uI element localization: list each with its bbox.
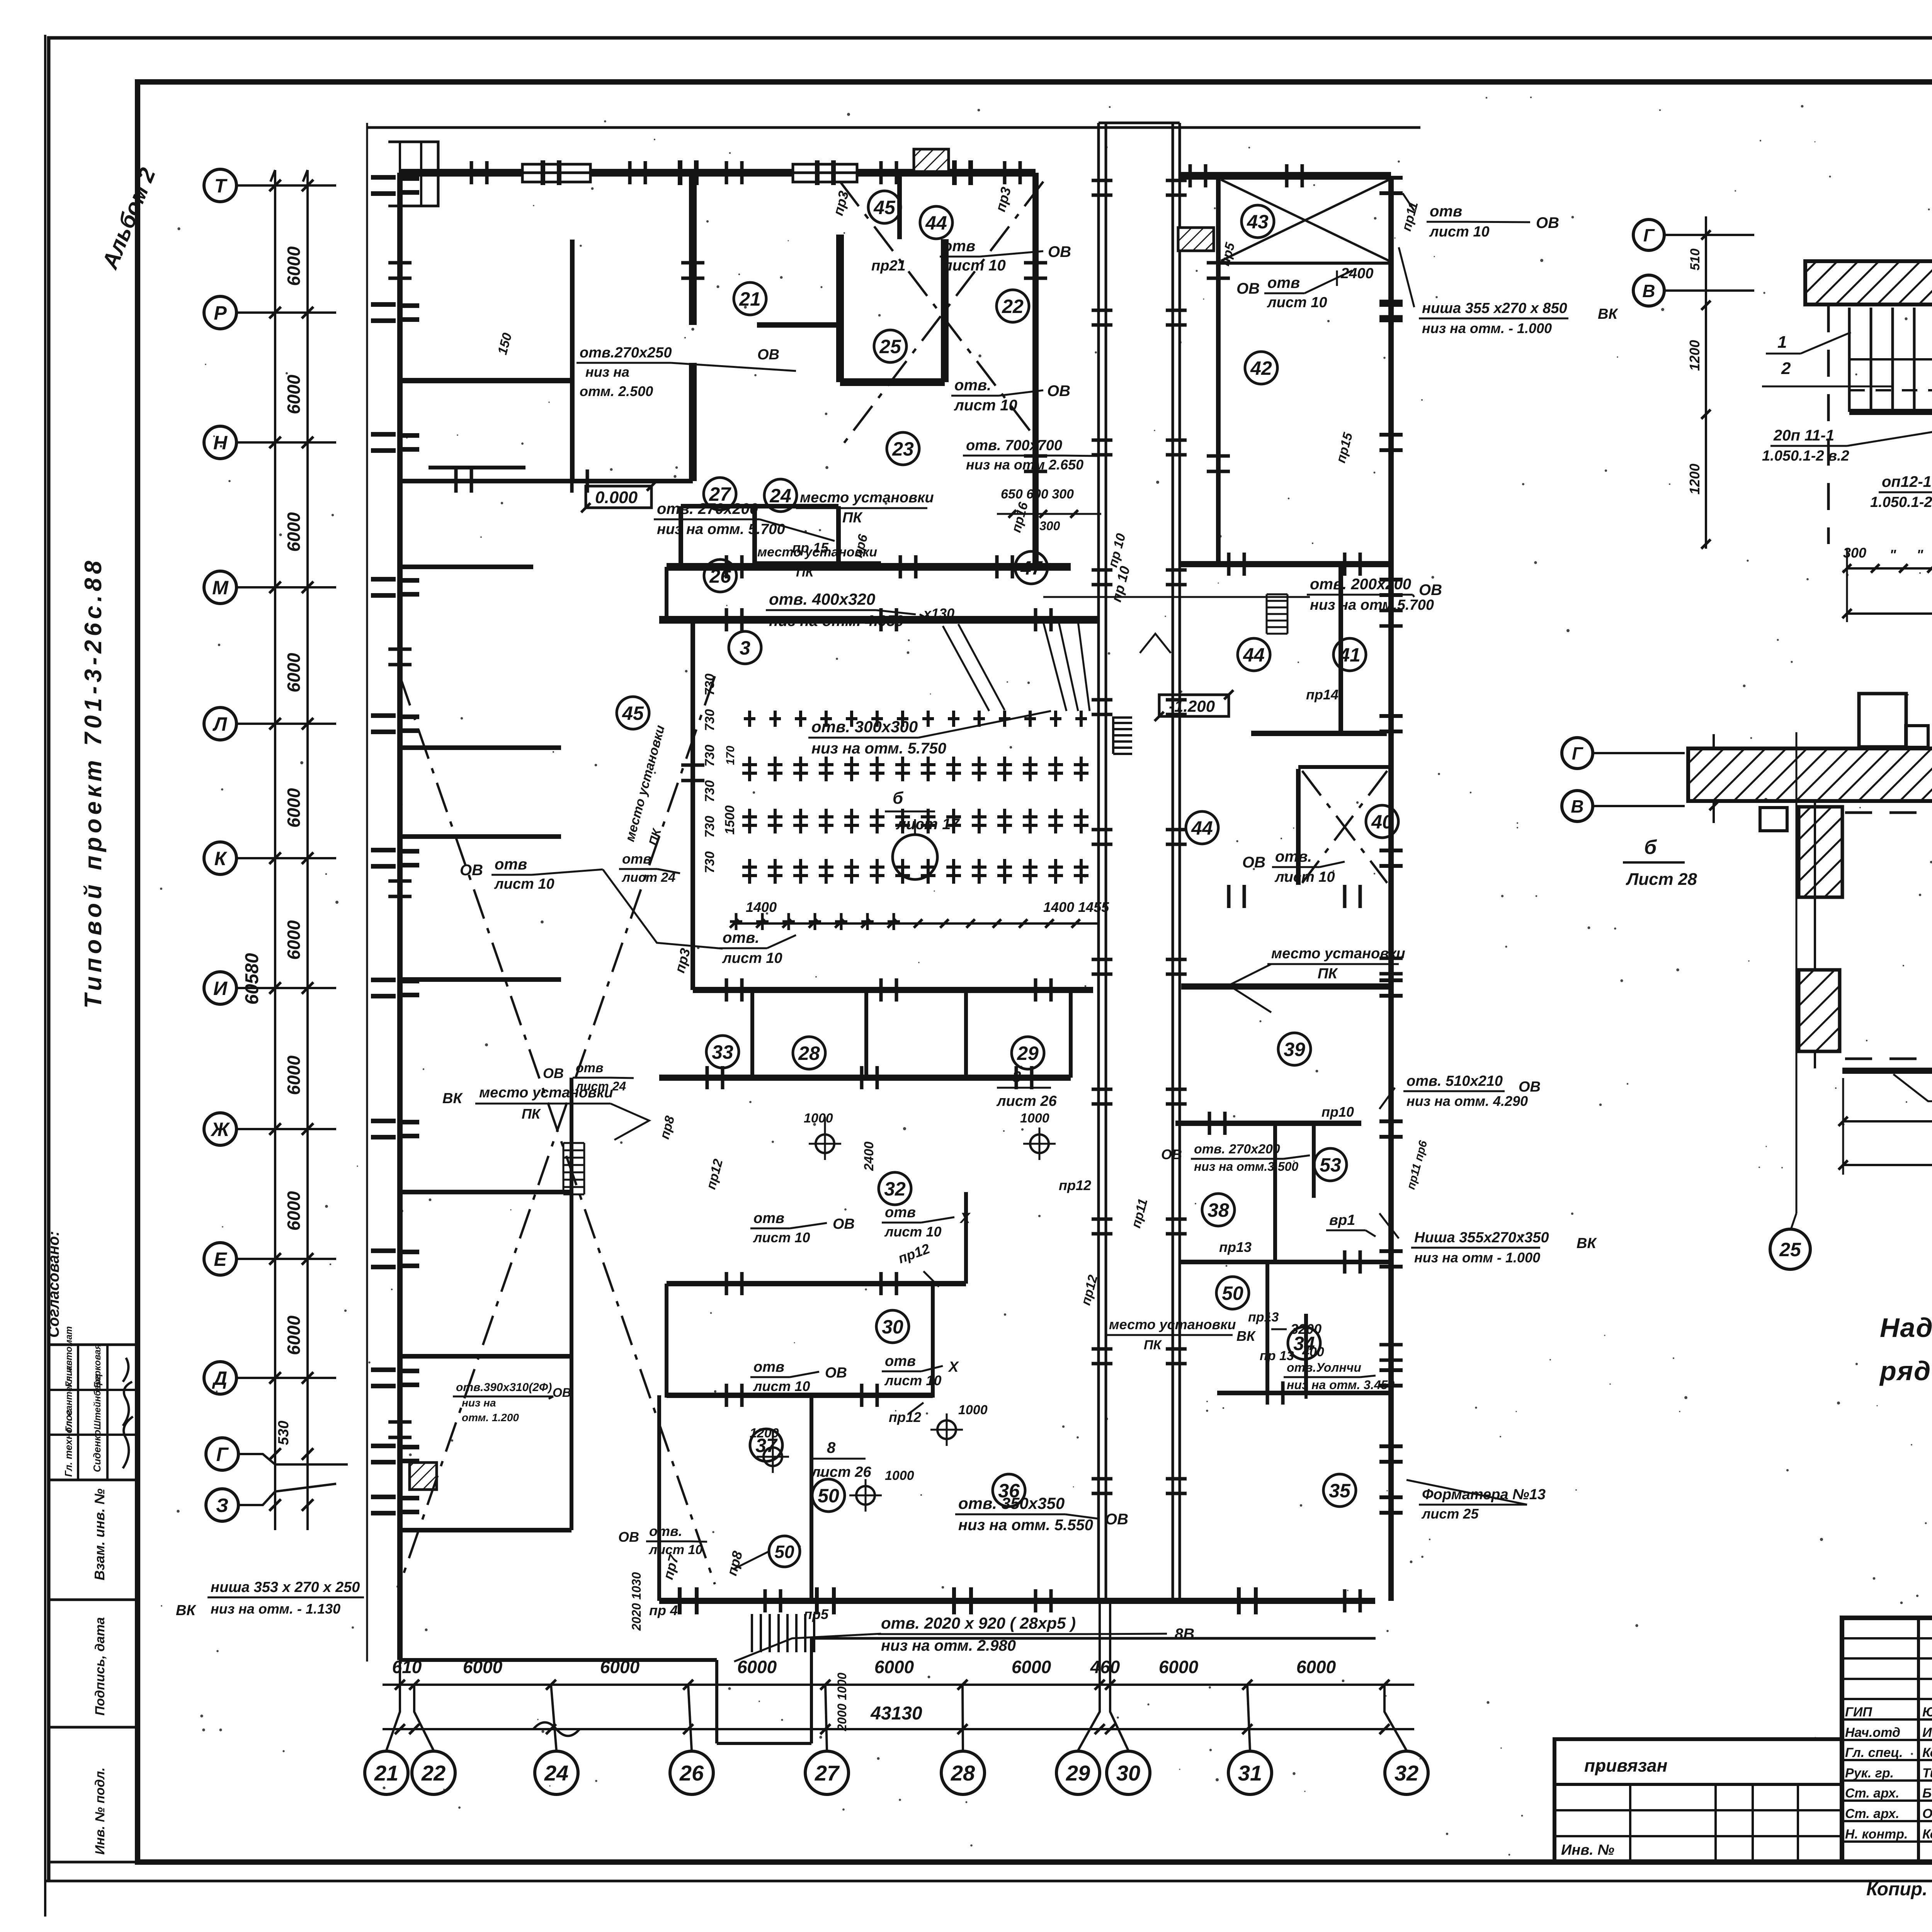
corridor colmark L9 (1092, 1347, 1112, 1351)
right wall column Е (1379, 1249, 1403, 1253)
left wall column Л (371, 713, 396, 718)
svg-text:Инв. № подл.: Инв. № подл. (93, 1767, 107, 1855)
svg-text:730: 730 (702, 673, 717, 696)
row33 partitions (750, 990, 754, 1078)
svg-text:1500: 1500 (723, 805, 737, 835)
room40 X diag (1302, 771, 1387, 883)
svg-text:460: 460 (1090, 1657, 1120, 1677)
room circle 28 (793, 1037, 825, 1069)
room circle 53 (1314, 1148, 1347, 1181)
svg-text:2400: 2400 (1340, 265, 1374, 282)
porch2 sq b (1906, 726, 1928, 747)
corridor colmark R5 (1166, 828, 1187, 832)
svg-text:1000: 1000 (804, 1111, 833, 1126)
svg-text:отв. 2020 x 920 ( 28хр5 ): отв. 2020 x 920 ( 28хр5 ) (881, 1614, 1076, 1632)
svg-text:28: 28 (798, 1043, 820, 1064)
corridor colmark L3 (1092, 568, 1112, 572)
svg-text:Г: Г (216, 1444, 229, 1465)
left wall column Е (371, 1248, 396, 1253)
left wall column З (371, 1495, 396, 1499)
svg-text:ПК: ПК (842, 510, 863, 526)
ann otv 47 fan (943, 626, 989, 711)
room35 divider (1304, 1393, 1308, 1399)
svg-text:отв: отв (753, 1359, 784, 1375)
row33 bottom wall (659, 1075, 1071, 1081)
left wall column И (371, 978, 396, 982)
bottom axis leader 28 (963, 1685, 963, 1750)
right wall column М (1379, 578, 1403, 582)
sheet scan bottom edge (45, 1880, 1932, 1883)
svg-text:Р: Р (214, 302, 227, 324)
room circle 45 (617, 697, 649, 729)
left dim tick К (269, 852, 281, 864)
room50-34 walls (1265, 1262, 1269, 1393)
bottom axis circle 22 (412, 1751, 455, 1794)
svg-text:лист 10: лист 10 (942, 257, 1006, 274)
left dim tick Ж (269, 1123, 281, 1135)
svg-text:6000: 6000 (284, 374, 304, 414)
svg-text:6000: 6000 (284, 788, 304, 828)
svg-text:отв.270x250: отв.270x250 (580, 345, 672, 361)
bottom axis circle 24 (535, 1751, 578, 1794)
external stair bottom (751, 1614, 753, 1652)
svg-text:53: 53 (1320, 1154, 1341, 1176)
room37 band (657, 1395, 661, 1601)
svg-text:лист 10: лист 10 (753, 1230, 810, 1245)
svg-text:ОВ: ОВ (460, 862, 483, 879)
right block top wall (1180, 172, 1391, 180)
svg-text:26: 26 (679, 1761, 704, 1785)
room circle 34 (1288, 1327, 1320, 1359)
svg-text:Г: Г (1643, 225, 1655, 245)
corridor colmark L4 (1092, 698, 1112, 702)
plan left wall (397, 173, 403, 1660)
room32 band walls (667, 1281, 966, 1286)
svg-text:отв. 510x210: отв. 510x210 (1406, 1073, 1503, 1089)
svg-text:ОВ: ОВ (1519, 1079, 1541, 1095)
svg-text:пр13: пр13 (1219, 1239, 1252, 1255)
corridor colmark R4 (1166, 698, 1187, 702)
axis circle Г (206, 1438, 238, 1470)
svg-text:1400: 1400 (746, 899, 777, 915)
porch2 dashed bottom (1845, 1058, 1932, 1060)
porch2 dim 5700 (1843, 1164, 1932, 1166)
svg-text:отв: отв (885, 1353, 916, 1369)
hall rack row 2 (748, 757, 751, 781)
svg-text:6000: 6000 (284, 1191, 304, 1231)
hatch box small (410, 1463, 437, 1490)
corridor colmark R9 (1166, 1347, 1187, 1351)
svg-text:пр12: пр12 (1059, 1177, 1091, 1193)
ann oplus 30c (856, 1486, 875, 1505)
svg-text:1400 1455: 1400 1455 (1043, 899, 1109, 915)
left wall column Д (371, 1367, 396, 1372)
porch1 dim 5700 (1847, 612, 1932, 615)
porch2 axis circle 25 (1770, 1229, 1810, 1269)
svg-text:20п 11-1: 20п 11-1 (1773, 427, 1834, 444)
svg-text:низ на отм. 5.700: низ на отм. 5.700 (657, 521, 785, 537)
svg-text:Ковбасюк: Ковбасюк (1922, 1745, 1932, 1760)
svg-text:ПК: ПК (796, 565, 814, 580)
sidebar approval table (49, 1345, 138, 1480)
svg-text:лист 26: лист 26 (811, 1464, 871, 1480)
bottom dim tick 29 (1095, 1680, 1105, 1690)
svg-text:отв: отв (943, 238, 975, 255)
bottom axis leader 31 (1247, 1685, 1250, 1750)
svg-text:-1.200: -1.200 (1169, 697, 1215, 715)
svg-text:Инв. №: Инв. № (1561, 1842, 1614, 1858)
svg-text:ниша 353 x 270 x 250: ниша 353 x 270 x 250 (211, 1579, 360, 1595)
porch2 thick L (1842, 912, 1932, 1071)
left wall column Г (371, 1444, 396, 1448)
svg-text:8: 8 (827, 1439, 836, 1456)
hall dim line (734, 922, 1097, 925)
titleblock row lines (1842, 1637, 1932, 1639)
ann oplus 30a (764, 1447, 782, 1466)
room circle 50 (812, 1479, 845, 1512)
room circle 29 (1012, 1037, 1044, 1069)
svg-text:отв.390x310(2Ф): отв.390x310(2Ф) (456, 1381, 552, 1394)
rooms44-41 partition (1338, 564, 1343, 733)
room25 box (836, 235, 844, 382)
svg-text:33: 33 (712, 1041, 733, 1063)
wall y2553 right (1181, 983, 1389, 990)
svg-text:39: 39 (1284, 1039, 1305, 1060)
bottom axis leader 26 (688, 1685, 692, 1750)
axis circle Е (204, 1243, 236, 1275)
svg-text:Рук. гр.: Рук. гр. (1845, 1766, 1894, 1781)
svg-text:2400: 2400 (862, 1141, 876, 1171)
svg-text:1: 1 (1777, 333, 1787, 352)
svg-text:К: К (214, 848, 228, 869)
titleblock col lines (1917, 1618, 1920, 1862)
svg-text:Берковая: Берковая (92, 1344, 103, 1388)
svg-text:пр13: пр13 (1248, 1310, 1279, 1325)
room circle 27 (704, 478, 736, 510)
room43 bottom thin (1218, 262, 1391, 265)
plan top canopy line (367, 126, 1420, 129)
porch1 axis V (1633, 275, 1664, 306)
hall rack row 3 (748, 809, 751, 833)
svg-text:45: 45 (873, 197, 896, 218)
svg-text:1000: 1000 (958, 1403, 988, 1417)
svg-text:привязан: привязан (1584, 1755, 1667, 1776)
svg-text:низ на отм. 5.750: низ на отм. 5.750 (811, 740, 946, 757)
svg-text:В: В (1571, 796, 1583, 816)
svg-text:место установки: место установки (1271, 946, 1405, 962)
svg-text:530: 530 (276, 1421, 292, 1445)
left wall column К (371, 848, 396, 852)
svg-text:лист 10: лист 10 (1274, 869, 1335, 885)
svg-text:44: 44 (1191, 817, 1213, 839)
axis circle М (204, 571, 236, 604)
svg-text:Ж: Ж (210, 1119, 230, 1140)
porch2 ann 20p12 (1893, 1074, 1932, 1101)
svg-text:45: 45 (622, 702, 644, 724)
axis circle Т (204, 169, 236, 202)
bottom axis circle 26 (670, 1751, 713, 1794)
bottom dim line 2 (383, 1728, 1414, 1730)
svg-text:низ на отм. 2.980: низ на отм. 2.980 (881, 1637, 1016, 1654)
porch2 sq c (1760, 808, 1787, 831)
wall junction ticks v (388, 261, 412, 265)
left dim tick М (269, 582, 281, 593)
svg-text:ОВ: ОВ (833, 1216, 855, 1232)
porch2 dim verticals (1842, 1078, 1844, 1175)
room53 walls (1273, 1123, 1277, 1262)
svg-text:50: 50 (1222, 1282, 1243, 1304)
svg-text:отв: отв (622, 851, 651, 867)
svg-text:место установки: место установки (757, 545, 877, 560)
axis circle З (206, 1489, 238, 1521)
svg-text:400: 400 (1302, 1345, 1324, 1359)
porch1 dim verticals (1846, 549, 1848, 622)
svg-text:Х: Х (948, 1359, 959, 1375)
svg-text:отв. 350x350: отв. 350x350 (958, 1494, 1065, 1512)
svg-text:Осадченко: Осадченко (1922, 1806, 1932, 1821)
svg-text:отм. 1.200: отм. 1.200 (462, 1412, 519, 1423)
porch2 sq a (1859, 694, 1906, 747)
svg-text:отв: отв (753, 1210, 784, 1226)
svg-text:22: 22 (421, 1761, 446, 1785)
right wall column Д (1379, 1368, 1403, 1372)
right wall column Л (1379, 714, 1403, 718)
svg-text:ОВ: ОВ (1236, 280, 1260, 297)
svg-text:отв: отв (495, 856, 527, 873)
svg-text:21: 21 (739, 288, 761, 310)
svg-text:лист 17: лист 17 (896, 816, 960, 833)
left wall column М (371, 577, 396, 582)
svg-text:ВК: ВК (1577, 1235, 1597, 1252)
room circle 38 (1202, 1194, 1235, 1226)
svg-text:пр 4: пр 4 (649, 1602, 678, 1618)
left dim tick Е (269, 1253, 281, 1265)
svg-text:ОВ: ОВ (1536, 214, 1559, 231)
svg-text:47: 47 (1020, 557, 1043, 579)
ladder symbol right block (1267, 594, 1287, 595)
left col room wall v1481 (570, 240, 575, 481)
plan bottom exterior line (400, 1658, 717, 1662)
top wall column 1781 (678, 160, 682, 185)
svg-text:ОВ: ОВ (553, 1386, 571, 1400)
room circle 3 (729, 631, 761, 664)
svg-text:ВК: ВК (1236, 1328, 1256, 1344)
svg-text:2020 1030: 2020 1030 (629, 1572, 643, 1631)
svg-text:пр10: пр10 (1321, 1104, 1354, 1120)
svg-text:22: 22 (1002, 296, 1024, 317)
svg-text:27: 27 (815, 1761, 840, 1785)
left dim tick Р (269, 307, 281, 318)
left col wall y3510 (400, 1354, 571, 1359)
right wall column З (1379, 1495, 1403, 1499)
bottom axis leader 27 (825, 1685, 827, 1750)
bottom axis line 29-30 up (1099, 1604, 1101, 1685)
svg-text:оп12-1: оп12-1 (1882, 473, 1932, 490)
bottom dim tick 32 (1379, 1680, 1389, 1690)
svg-text:ВК: ВК (176, 1602, 196, 1619)
hall left wall x1793 (690, 620, 695, 990)
svg-text:730: 730 (702, 816, 717, 838)
left dim tick Т (269, 180, 281, 191)
hall rack row 4 (748, 859, 751, 884)
svg-text:6000: 6000 (284, 653, 304, 692)
svg-text:6000: 6000 (737, 1657, 777, 1677)
left wall column Н (371, 432, 396, 437)
bottom dim tick 21 (395, 1680, 405, 1690)
svg-text:ПК: ПК (1318, 966, 1338, 982)
room40 area walls (1296, 769, 1301, 885)
svg-text:лист 26: лист 26 (996, 1093, 1057, 1109)
svg-text:ОВ: ОВ (618, 1529, 639, 1545)
svg-text:300: 300 (1039, 519, 1060, 533)
bottom dim tick 26 (683, 1680, 693, 1690)
svg-text:Взам. инв. №: Взам. инв. № (92, 1488, 107, 1580)
svg-text:лист 10: лист 10 (884, 1224, 941, 1240)
svg-text:б: б (893, 789, 904, 808)
svg-text:ОВ: ОВ (1419, 582, 1442, 599)
svg-text:6000: 6000 (284, 1315, 304, 1355)
svg-text:место установки: место установки (479, 1085, 613, 1101)
svg-text:": " (1917, 547, 1923, 563)
right wall column Г (1379, 1444, 1403, 1448)
svg-text:1200: 1200 (1687, 464, 1702, 495)
svg-text:6000: 6000 (284, 246, 304, 286)
svg-text:": " (1889, 547, 1896, 563)
ann oplus 29 (1030, 1134, 1049, 1153)
porch2 dim col (1713, 734, 1715, 823)
left col room wall h985 (400, 378, 572, 383)
svg-text:510: 510 (1688, 248, 1702, 270)
svg-text:32: 32 (884, 1178, 906, 1200)
svg-text:Н. контр.: Н. контр. (1845, 1827, 1908, 1842)
corridor colmark L2 (1092, 439, 1112, 442)
svg-text:42: 42 (1250, 357, 1272, 379)
svg-text:отв.Уолнчи: отв.Уолнчи (1287, 1361, 1361, 1374)
ann x130 fan (920, 614, 966, 622)
svg-text:отв: отв (1267, 274, 1300, 291)
corridor colmark L7 (1092, 1088, 1112, 1091)
svg-text:низ на отм - 1.000: низ на отм - 1.000 (1414, 1250, 1540, 1265)
svg-text:32: 32 (1395, 1761, 1418, 1785)
svg-text:8В: 8В (1175, 1626, 1194, 1643)
svg-text:Над проемами до 500мм. уст: Над проемами до 500мм. устроить (1880, 1313, 1932, 1343)
svg-text:отв: отв (1430, 203, 1462, 220)
left wall column Т (371, 175, 396, 180)
left col room wall h1210 (429, 466, 526, 469)
ladder symbol left wall (563, 1142, 584, 1144)
svg-text:Ст. арх.: Ст. арх. (1845, 1786, 1899, 1801)
svg-text:Форматера №13: Форматера №13 (1422, 1486, 1546, 1503)
svg-text:730: 730 (702, 780, 717, 802)
room21 bottom wall (400, 479, 693, 483)
room29 right wall (1069, 990, 1073, 1078)
bottom dim tick 28 (957, 1680, 968, 1690)
porch2 col hatch 2 (1799, 970, 1840, 1051)
room circle 26 (704, 560, 736, 592)
svg-text:Ниша 355x270x350: Ниша 355x270x350 (1414, 1230, 1549, 1246)
left dim tick Л (269, 718, 281, 730)
svg-text:низ на отм. 4.950: низ на отм. 4.950 (769, 612, 904, 629)
svg-text:44: 44 (1243, 644, 1265, 666)
dashdot X line 3 (840, 182, 1043, 448)
svg-text:29: 29 (1066, 1761, 1090, 1785)
svg-text:ВК: ВК (1598, 306, 1618, 322)
bottom dim tick 31 (1242, 1680, 1252, 1690)
svg-text:Н: Н (213, 432, 228, 454)
axis circle Р (204, 296, 236, 329)
vent shaft hatch top (914, 149, 949, 172)
svg-text:лист 10: лист 10 (1429, 224, 1490, 240)
svg-text:отв.: отв. (723, 929, 759, 946)
porch2 pit dashed (1845, 811, 1932, 814)
hall rack row 1 (748, 711, 751, 727)
corridor right wall (1172, 123, 1174, 1601)
svg-text:лист 10: лист 10 (648, 1543, 702, 1557)
sidebar cell inv n podl (49, 1727, 138, 1862)
left col vert x1479 (570, 1078, 573, 1530)
svg-text:ОВ: ОВ (757, 347, 779, 363)
left dim arrows top (270, 170, 275, 182)
svg-text:пр12: пр12 (889, 1409, 921, 1425)
svg-text:отв: отв (885, 1204, 916, 1221)
svg-text:1200: 1200 (1687, 340, 1702, 371)
bottom dim wavy break (533, 1723, 580, 1736)
svg-text:30: 30 (882, 1316, 903, 1338)
svg-text:25: 25 (1779, 1239, 1801, 1260)
porch1 slab left (1805, 261, 1932, 304)
ann stair symbol corridor (1113, 753, 1132, 755)
room circle 44 (1186, 811, 1218, 844)
svg-text:Л: Л (213, 713, 228, 735)
label 0.000 (586, 486, 651, 508)
ann fan lines (1043, 622, 1066, 711)
axis circle К (204, 842, 236, 874)
hall big circle (893, 835, 937, 879)
svg-text:ОВ: ОВ (1047, 383, 1070, 400)
svg-text:0.000: 0.000 (595, 488, 638, 507)
svg-text:отм. 2.500: отм. 2.500 (580, 383, 653, 399)
bottom axis leader 32 (1384, 1685, 1406, 1750)
room circle 22 (997, 290, 1029, 322)
porch2 slab left (1688, 748, 1932, 801)
svg-text:28: 28 (951, 1761, 975, 1785)
corridor colmark L5 (1092, 828, 1112, 832)
bottom axis leader 22 (414, 1685, 434, 1750)
room43 X diag (1221, 180, 1389, 261)
right wall column Ж (1379, 1119, 1403, 1123)
svg-text:3: 3 (740, 637, 750, 659)
svg-text:38: 38 (1207, 1199, 1229, 1221)
wall y2900 right (1175, 1121, 1361, 1126)
left wall column Ж (371, 1119, 396, 1123)
svg-text:М: М (212, 577, 229, 599)
right wall column Т (1379, 176, 1403, 180)
wall left col y1245b (400, 565, 533, 569)
svg-text:отв.: отв. (954, 377, 991, 394)
svg-text:лист 10: лист 10 (722, 950, 782, 966)
svg-text:Гл. спец.: Гл. спец. (1845, 1745, 1903, 1760)
corridor colmark R1 (1166, 309, 1187, 312)
svg-text:Сиденко: Сиденко (91, 1430, 103, 1472)
left dim tick Г (269, 1448, 281, 1460)
corridor colmark L8 (1092, 1218, 1112, 1221)
axis circle Л (204, 707, 236, 740)
svg-text:Согласовано:: Согласовано: (45, 1231, 62, 1338)
svg-text:ОВ: ОВ (1161, 1146, 1182, 1162)
plan left axis line (366, 123, 368, 1662)
room circle 21 (734, 282, 766, 315)
svg-text:Г: Г (1572, 743, 1583, 764)
